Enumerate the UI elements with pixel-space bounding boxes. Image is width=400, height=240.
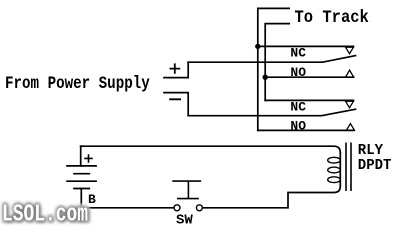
svg-text:NO: NO <box>290 119 306 134</box>
svg-text:NC: NC <box>290 99 306 114</box>
switch stem <box>187 181 189 199</box>
battery plate short 1 <box>73 173 90 175</box>
wire: battery stem to bottom rail <box>81 189 174 208</box>
relay coil loops <box>328 157 341 182</box>
svg-text:LSOL.com: LSOL.com <box>2 202 88 229</box>
contact: NO1 triangle <box>346 70 354 77</box>
battery B plates <box>66 166 97 189</box>
node: junction dot NC1 on left lead <box>255 44 260 49</box>
wire: + terminal stub and riser <box>164 62 188 77</box>
watermark LSOL.com <box>2 202 90 231</box>
wire: coil vertical backbone <box>339 153 341 186</box>
svg-text:NO: NO <box>290 65 306 80</box>
node: junction dot NO1 on right lead <box>263 75 268 80</box>
wire: To Track lower lead <box>265 24 289 101</box>
label: - of power supply <box>169 98 181 100</box>
contact: NC1 triangle <box>346 47 354 54</box>
relay core lines <box>346 143 351 192</box>
svg-text:To Track: To Track <box>295 7 370 27</box>
switch cap <box>172 180 201 182</box>
switch SW pushbutton actuator <box>172 181 201 199</box>
wire: switch to coil return, stepped <box>202 186 340 208</box>
wire: NC1 throw line <box>258 45 354 47</box>
wire: NC2 throw line <box>265 99 353 101</box>
wire: battery positive lead <box>80 146 82 166</box>
svg-text:SW: SW <box>176 212 193 228</box>
wire: bottom loop top rail into coil <box>81 146 341 153</box>
battery plate short 2 <box>73 188 90 190</box>
switch bridge bar <box>177 198 199 200</box>
svg-text:DPDT: DPDT <box>358 158 392 175</box>
svg-text:NC: NC <box>290 45 306 60</box>
wire: pole arm 1 from + supply <box>188 56 355 63</box>
wire: - terminal stub and dropper <box>164 93 188 116</box>
svg-text:RLY: RLY <box>358 143 384 159</box>
battery plate long 2 <box>66 180 97 182</box>
wire: To Track upper lead <box>258 8 289 130</box>
wire: pole arm 2 from - supply <box>188 109 355 116</box>
switch contact circle left <box>174 205 180 211</box>
svg-text:From Power Supply: From Power Supply <box>5 74 150 94</box>
contact: NO2 triangle <box>346 124 354 131</box>
label: + of power supply <box>170 63 181 73</box>
wire: NO2 throw line <box>258 129 354 131</box>
switch contact circle right <box>196 205 202 211</box>
battery plate long 1 <box>66 165 97 167</box>
label: + of battery <box>84 154 93 163</box>
contact: NC2 triangle <box>346 101 354 108</box>
wire: NO1 throw line <box>265 76 353 78</box>
